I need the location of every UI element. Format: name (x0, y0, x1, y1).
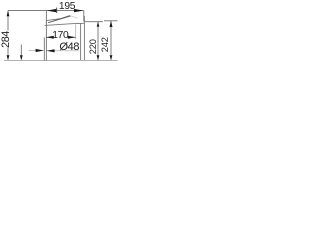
wire left ext line x=46.3 full (45, 11, 47, 61)
arrow 284 bottom down (7, 55, 10, 60)
wire second vertical x=44.2 (43, 37, 45, 61)
node ext stub at x56.7 (56, 8, 58, 13)
arrow stub x21 down (20, 55, 23, 60)
faucet spout top edge (46, 19, 60, 21)
wire 170 dim line right segment (67, 36, 75, 38)
faucet body left edge (80, 23, 82, 60)
arrow 170 right (68, 36, 76, 39)
svg-text:220: 220 (88, 39, 98, 54)
svg-text:284: 284 (0, 31, 12, 48)
arrow 170 left (46, 36, 54, 39)
wire right ext line A (220) (84, 21, 103, 23)
wire 220 dim vertical (97, 22, 99, 60)
arrow phi48 pointing right (36, 49, 44, 52)
wire phi48 dim tail right / underline (47, 50, 79, 52)
faucet spout tip edge (45, 20, 47, 25)
faucet body right edge (83, 16, 85, 60)
faucet lever handle wedge (48, 15, 71, 23)
svg-text:170: 170 (52, 30, 69, 41)
faucet lever-to-body connector (71, 16, 78, 18)
wire 195 right ext line (83, 11, 85, 22)
arrow 195 left (47, 9, 56, 12)
arrow phi48 pointing left (47, 49, 55, 52)
wire 170 right ext line (75, 24, 77, 39)
wire phi48 dim tail left (29, 50, 44, 52)
svg-text:195: 195 (59, 1, 76, 12)
wire right ext line B (242) (104, 20, 118, 22)
arrow 242 bottom down (110, 55, 113, 60)
arrow 242 top up (110, 21, 113, 27)
arrow 195 right (74, 9, 83, 12)
wire vertical stub x=21.3 (20, 45, 22, 60)
wire top horizontal extension/dim line (8, 10, 84, 12)
wire 242 dim vertical (110, 21, 112, 60)
arrow 284 top up (7, 11, 10, 17)
arrow 220 bottom down (97, 55, 100, 60)
svg-text:Ø48: Ø48 (59, 41, 79, 53)
arrow 220 top up (97, 22, 100, 27)
faucet head underside (76, 22, 85, 24)
svg-text:242: 242 (100, 37, 110, 52)
faucet spout underside (45, 23, 76, 25)
baseline counter line (4, 60, 118, 62)
wire 170 dim line left segment (46, 36, 52, 38)
wire 284 dimension vertical (broken at text) (7, 11, 9, 31)
